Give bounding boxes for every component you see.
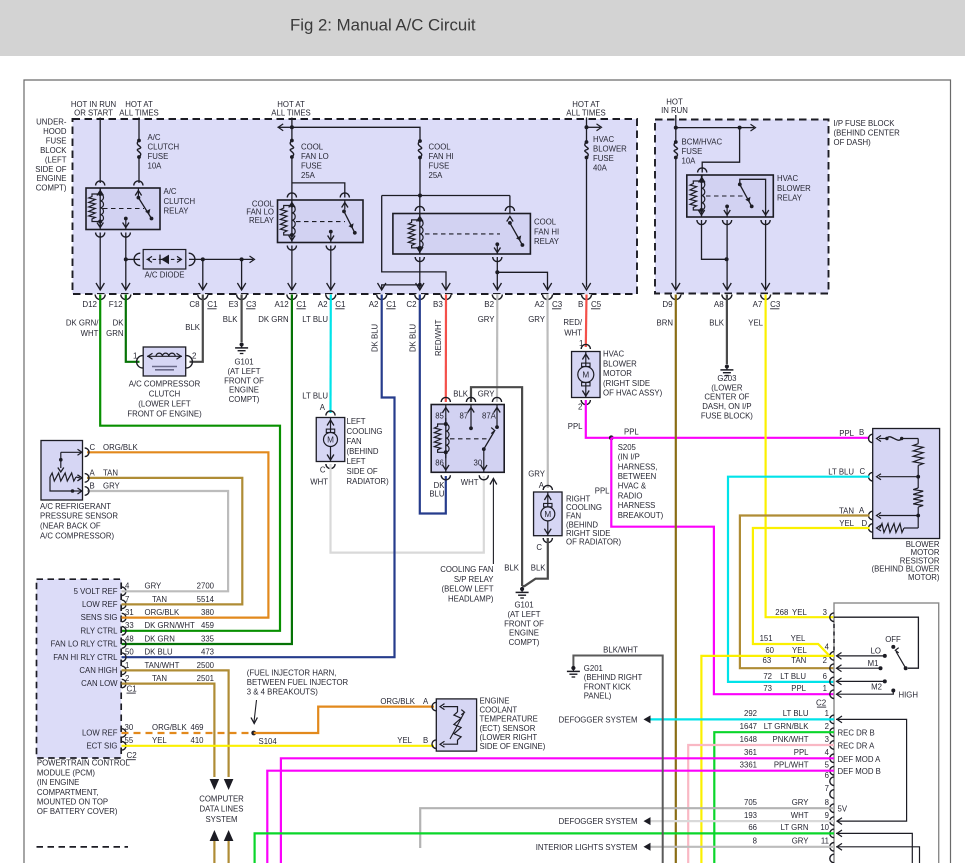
wire feed to B3 exit xyxy=(382,196,446,291)
svg-text:RELAY: RELAY xyxy=(249,216,275,225)
svg-text:193: 193 xyxy=(744,811,757,820)
svg-text:C: C xyxy=(536,543,542,552)
svg-text:SIDE OF: SIDE OF xyxy=(35,165,66,174)
fan switch M1 contact xyxy=(879,666,883,670)
connector E3 C3 xyxy=(236,294,246,299)
svg-text:FAN LO: FAN LO xyxy=(301,152,329,161)
wire WHT left fan to S/P relay 30 xyxy=(331,464,484,553)
wire DK BLU A2 C1 to PCM FAN HI RLY CTRL xyxy=(122,295,395,658)
svg-text:A: A xyxy=(859,506,865,515)
svg-text:RLY CTRL: RLY CTRL xyxy=(81,626,119,635)
svg-text:ALL TIMES: ALL TIMES xyxy=(119,109,158,118)
svg-text:2: 2 xyxy=(192,352,197,361)
svg-text:LOW REF: LOW REF xyxy=(82,600,118,609)
svg-text:2: 2 xyxy=(125,674,129,683)
relay COOL FAN LO RELAY box xyxy=(278,200,364,243)
svg-text:C1: C1 xyxy=(296,300,307,309)
svg-text:(LOWER RIGHT: (LOWER RIGHT xyxy=(480,733,538,742)
wire ORG/BLK 380 pressure sensor C xyxy=(87,452,268,617)
fan switch pin 7 xyxy=(830,790,834,799)
svg-text:FUSE: FUSE xyxy=(46,136,67,145)
svg-text:50: 50 xyxy=(125,648,134,657)
svg-text:A/C: A/C xyxy=(164,187,177,196)
svg-text:SENS SIG: SENS SIG xyxy=(81,613,118,622)
svg-text:FUSE: FUSE xyxy=(682,147,703,156)
svg-text:30: 30 xyxy=(125,723,134,732)
wire tap to hvac blower relay xyxy=(676,127,740,129)
fan switch pin 5 xyxy=(830,766,834,775)
fuse A/C CLUTCH FUSE 10A xyxy=(137,139,141,143)
svg-text:COOLING: COOLING xyxy=(347,427,383,436)
svg-text:UNDER-: UNDER- xyxy=(36,118,67,127)
svg-text:BREAKOUT): BREAKOUT) xyxy=(618,511,664,520)
svg-text:410: 410 xyxy=(190,736,204,745)
svg-text:(RIGHT SIDE: (RIGHT SIDE xyxy=(603,379,650,388)
svg-text:1648: 1648 xyxy=(740,735,757,744)
svg-text:A: A xyxy=(90,468,96,477)
svg-text:MOUNTED ON TOP: MOUNTED ON TOP xyxy=(37,798,108,807)
connector B C5 xyxy=(581,294,591,299)
svg-text:REC DR A: REC DR A xyxy=(838,742,876,751)
hvac blower relay switch xyxy=(740,179,766,217)
svg-text:8: 8 xyxy=(753,837,757,846)
wire LT GRN/BLK 1647 xyxy=(714,732,834,863)
wire GRY 2700 pressure sensor B xyxy=(87,491,228,591)
svg-text:335: 335 xyxy=(201,634,215,643)
svg-text:ORG/BLK: ORG/BLK xyxy=(145,608,180,617)
wire PNK/WHT 1648 xyxy=(688,745,834,863)
svg-text:(AT LEFT: (AT LEFT xyxy=(227,367,260,376)
svg-text:CLUTCH: CLUTCH xyxy=(164,197,196,206)
svg-text:85: 85 xyxy=(435,412,444,421)
svg-text:GRY: GRY xyxy=(528,470,546,479)
svg-text:DK BLU: DK BLU xyxy=(371,323,380,352)
component LEFT COOLING FAN motor xyxy=(326,411,335,416)
svg-text:BLK: BLK xyxy=(531,564,547,573)
svg-text:LEFT: LEFT xyxy=(347,457,366,466)
diode A/C DIODE xyxy=(126,258,140,260)
svg-text:GRY: GRY xyxy=(792,837,810,846)
svg-text:48: 48 xyxy=(125,634,134,643)
svg-text:INTERIOR LIGHTS SYSTEM: INTERIOR LIGHTS SYSTEM xyxy=(536,843,638,852)
svg-text:GRN: GRN xyxy=(106,329,123,338)
svg-text:PPL: PPL xyxy=(624,428,639,437)
wire LT BLU A2 to left cooling fan xyxy=(329,295,331,414)
svg-text:D9: D9 xyxy=(662,300,673,309)
fuse BCM/HVAC FUSE 10A xyxy=(674,140,678,144)
svg-text:RELAY: RELAY xyxy=(164,207,190,216)
svg-text:A8: A8 xyxy=(714,300,724,309)
svg-text:72: 72 xyxy=(763,672,772,681)
cool fan lo relay dashed link xyxy=(296,221,345,223)
component RIGHT COOLING FAN motor xyxy=(543,485,552,490)
svg-text:DK BLU: DK BLU xyxy=(409,323,418,352)
svg-text:55: 55 xyxy=(125,736,134,745)
svg-text:DK: DK xyxy=(113,319,125,328)
A/C clutch relay switch xyxy=(137,188,139,196)
wire RED/WHT B3 to S/P relay 85 xyxy=(445,295,447,403)
svg-text:4: 4 xyxy=(825,748,830,757)
svg-text:C1: C1 xyxy=(207,300,218,309)
splice S205 xyxy=(609,435,614,440)
wire PPL S205 to fan switch 73 xyxy=(611,438,834,694)
S/P relay switch arm xyxy=(484,431,495,449)
wire relay to F12 exit xyxy=(125,233,127,291)
svg-text:A/C DIODE: A/C DIODE xyxy=(145,271,185,280)
svg-text:LT GRN: LT GRN xyxy=(781,823,809,832)
svg-text:WHT: WHT xyxy=(564,329,582,338)
cool fan hi feed rail xyxy=(382,195,510,197)
wire RED/WHT B C5 to blower motor xyxy=(585,295,588,348)
svg-text:CAN LOW: CAN LOW xyxy=(81,679,118,688)
wire BLK right fan to G101 xyxy=(522,538,548,586)
svg-text:DEFOGGER SYSTEM: DEFOGGER SYSTEM xyxy=(559,817,638,826)
wire ORG/BLK 469 dashed to S104 xyxy=(122,732,251,734)
svg-text:6: 6 xyxy=(823,672,827,681)
svg-text:TEMPERATURE: TEMPERATURE xyxy=(480,715,538,724)
svg-text:A/C COMPRESSOR: A/C COMPRESSOR xyxy=(129,380,201,389)
svg-text:LT BLU: LT BLU xyxy=(302,315,328,324)
svg-text:C: C xyxy=(320,466,326,475)
svg-text:A/C COMPRESSOR): A/C COMPRESSOR) xyxy=(40,531,114,540)
svg-text:BRN: BRN xyxy=(657,319,673,328)
svg-text:BETWEEN: BETWEEN xyxy=(618,472,657,481)
wire LT BLU 292 defogger row xyxy=(651,718,835,720)
ground G101 (left front engine) xyxy=(520,587,524,591)
component ENGINE COOLANT TEMPERATURE SENSOR xyxy=(436,699,476,751)
module POWERTRAIN CONTROL MODULE box xyxy=(37,579,122,758)
svg-text:OR START: OR START xyxy=(74,109,113,118)
connector A2 C1 xyxy=(326,294,336,299)
svg-text:C: C xyxy=(860,467,866,476)
svg-text:473: 473 xyxy=(201,648,214,657)
wire BLK A8 to G203 xyxy=(726,295,728,365)
svg-text:C2: C2 xyxy=(816,698,827,707)
svg-text:F12: F12 xyxy=(109,300,123,309)
I/P fuse block box xyxy=(655,120,829,294)
svg-text:YEL: YEL xyxy=(152,736,167,745)
wire TAN 2501 to data lines xyxy=(122,684,215,777)
wire TAN resistor A to fan switch 63 xyxy=(740,516,870,669)
svg-text:COMPT): COMPT) xyxy=(36,184,67,193)
wire GRY 8 interior lights row xyxy=(651,846,835,848)
svg-text:RED/: RED/ xyxy=(563,318,582,327)
svg-text:HIGH: HIGH xyxy=(899,691,919,700)
svg-text:DK GRN: DK GRN xyxy=(258,315,288,324)
svg-text:WHT: WHT xyxy=(461,478,479,487)
svg-text:A2: A2 xyxy=(318,300,328,309)
svg-text:FAN HI RLY CTRL: FAN HI RLY CTRL xyxy=(53,653,118,662)
svg-text:G101: G101 xyxy=(514,601,533,610)
cool fan lo relay output pin xyxy=(329,230,333,234)
svg-text:C3: C3 xyxy=(770,300,781,309)
connector A12 C1 xyxy=(287,294,297,299)
svg-text:ENGINE: ENGINE xyxy=(229,386,259,395)
svg-text:BETWEEN FUEL INJECTOR: BETWEEN FUEL INJECTOR xyxy=(247,678,349,687)
svg-text:C3: C3 xyxy=(246,300,257,309)
svg-text:DK BLU: DK BLU xyxy=(145,648,174,657)
svg-text:GRY: GRY xyxy=(792,798,810,807)
svg-text:1: 1 xyxy=(125,661,129,670)
A/C clutch relay coil xyxy=(99,188,101,194)
svg-text:LT BLU: LT BLU xyxy=(828,468,854,477)
wire BLK S/P relay 87 to G101 xyxy=(471,387,522,586)
fan switch pin 11 xyxy=(830,843,834,852)
wire GRY A2 C3 to right cooling fan xyxy=(546,295,548,489)
svg-text:7: 7 xyxy=(125,595,129,604)
connector A8 xyxy=(722,294,732,299)
below-PCM dashed box edge xyxy=(37,846,129,848)
svg-text:BLK: BLK xyxy=(709,319,725,328)
connector D12 xyxy=(95,294,105,299)
svg-text:RELAY: RELAY xyxy=(534,237,560,246)
svg-text:ORG/BLK: ORG/BLK xyxy=(152,723,187,732)
svg-text:SIDE OF ENGINE): SIDE OF ENGINE) xyxy=(480,742,546,751)
svg-text:YEL: YEL xyxy=(792,608,807,617)
svg-text:10: 10 xyxy=(820,823,829,832)
svg-text:DEF MOD B: DEF MOD B xyxy=(838,767,881,776)
wire to C8 exit xyxy=(202,259,204,290)
wire cool fan lo fuse drop xyxy=(291,118,293,141)
svg-text:WHT: WHT xyxy=(81,329,99,338)
svg-text:PPL: PPL xyxy=(839,429,854,438)
relay A/C CLUTCH RELAY box xyxy=(86,188,160,230)
wire DK BLU C2 to S/P relay 86 xyxy=(420,295,446,514)
fan switch pin arcs C2 xyxy=(830,613,834,622)
svg-text:C2: C2 xyxy=(127,751,138,760)
svg-text:ORG/BLK: ORG/BLK xyxy=(103,443,138,452)
A/C clutch relay dashed link xyxy=(103,208,144,210)
svg-text:7: 7 xyxy=(825,784,829,793)
fuse COOL FAN HI FUSE 25A xyxy=(418,139,422,143)
svg-text:ENGINE: ENGINE xyxy=(509,629,539,638)
svg-text:B3: B3 xyxy=(433,300,443,309)
svg-text:3361: 3361 xyxy=(740,761,757,770)
svg-text:B: B xyxy=(859,428,864,437)
wire coil out to A2 C1 and C2 exits xyxy=(419,257,421,285)
S/P relay coil xyxy=(445,405,447,425)
ground G101 (engine compt) xyxy=(240,342,244,346)
svg-text:8: 8 xyxy=(825,798,829,807)
fan switch pin 2 xyxy=(830,728,834,737)
wire BLK C8 to compressor clutch pin 2 xyxy=(190,295,203,362)
svg-text:COMPARTMENT,: COMPARTMENT, xyxy=(37,788,99,797)
S/P relay 87 contact xyxy=(470,405,472,429)
wire hvac blower fuse drop xyxy=(586,118,588,143)
wire WHT 193 defogger row xyxy=(651,820,835,822)
svg-text:COOL: COOL xyxy=(534,218,557,227)
svg-text:2: 2 xyxy=(823,656,827,665)
svg-text:WHT: WHT xyxy=(310,478,328,487)
svg-text:3: 3 xyxy=(823,608,827,617)
wire YEL A7 to fan switch 268 xyxy=(766,295,834,618)
svg-text:YEL: YEL xyxy=(748,319,763,328)
svg-text:CLUTCH: CLUTCH xyxy=(148,142,180,151)
svg-text:31: 31 xyxy=(125,608,134,617)
hvac blower relay dashed link xyxy=(706,195,746,197)
svg-text:PNK/WHT: PNK/WHT xyxy=(773,735,809,744)
wire PPL S205 to blower resistor B xyxy=(611,437,869,439)
svg-text:RED/WHT: RED/WHT xyxy=(434,319,443,356)
svg-text:S104: S104 xyxy=(259,737,278,746)
connector A7 C3 xyxy=(760,294,770,299)
wire BRN D9 down xyxy=(675,295,677,863)
fan switch M2 contact xyxy=(883,679,887,683)
svg-text:LT GRN/BLK: LT GRN/BLK xyxy=(764,722,810,731)
svg-text:361: 361 xyxy=(744,748,757,757)
resistor internal element A to D xyxy=(877,513,882,519)
fan switch pin 3 xyxy=(830,741,834,750)
wire switch out to B2 and A2 C3 exits xyxy=(496,257,498,272)
svg-text:25A: 25A xyxy=(301,171,316,180)
svg-text:FRONT KICK: FRONT KICK xyxy=(584,682,632,691)
svg-text:PPL: PPL xyxy=(791,684,806,693)
svg-text:3: 3 xyxy=(825,735,829,744)
svg-text:LEFT: LEFT xyxy=(347,417,366,426)
svg-text:COMPT): COMPT) xyxy=(509,638,540,647)
fan switch pin 9 xyxy=(830,817,834,826)
wire hvac relay to A8 exit xyxy=(726,220,728,290)
svg-text:PPL: PPL xyxy=(794,748,809,757)
svg-text:FUSE: FUSE xyxy=(148,152,169,161)
fan switch pin 10 xyxy=(830,829,834,838)
svg-text:FAN LO RLY CTRL: FAN LO RLY CTRL xyxy=(51,640,119,649)
fan switch internal links right side xyxy=(836,719,907,821)
cool fan lo relay coil xyxy=(291,200,293,206)
relay COOLING FAN S/P RELAY box xyxy=(441,397,450,402)
connector C2 xyxy=(415,294,425,299)
svg-text:LOW REF: LOW REF xyxy=(82,729,118,738)
svg-text:(NEAR BACK OF: (NEAR BACK OF xyxy=(40,522,101,531)
svg-text:5: 5 xyxy=(825,761,830,770)
svg-text:ORG/BLK: ORG/BLK xyxy=(380,697,415,706)
svg-text:IN RUN: IN RUN xyxy=(661,106,688,115)
cool fan lo relay switch xyxy=(344,200,346,210)
relay COOL FAN HI RELAY box xyxy=(393,214,531,255)
wire hvac relay coil out joins A8 xyxy=(702,220,727,259)
svg-text:87A: 87A xyxy=(482,412,497,421)
svg-text:(BEHIND RIGHT: (BEHIND RIGHT xyxy=(584,673,643,682)
wire PPL blower motor to S205 xyxy=(586,400,612,438)
wire PPL 361 xyxy=(281,758,834,863)
svg-text:B: B xyxy=(578,300,583,309)
svg-text:151: 151 xyxy=(760,634,773,643)
svg-text:PRESSURE SENSOR: PRESSURE SENSOR xyxy=(40,512,118,521)
node diode to C8 xyxy=(201,257,205,261)
svg-text:RELAY: RELAY xyxy=(777,194,803,203)
svg-text:YEL: YEL xyxy=(397,736,412,745)
wire TAN 5514 pressure sensor A xyxy=(87,478,242,605)
svg-text:(BEHIND CENTER: (BEHIND CENTER xyxy=(834,129,901,138)
svg-text:G201: G201 xyxy=(584,664,603,673)
underhood fuse block box xyxy=(73,119,638,294)
svg-text:87: 87 xyxy=(460,412,469,421)
svg-text:CLUTCH: CLUTCH xyxy=(149,390,181,399)
svg-text:SIDE OF: SIDE OF xyxy=(347,467,378,476)
svg-text:FRONT OF ENGINE): FRONT OF ENGINE) xyxy=(127,410,202,419)
svg-text:A: A xyxy=(320,403,326,412)
svg-text:PPL: PPL xyxy=(595,487,610,496)
svg-text:73: 73 xyxy=(763,684,772,693)
cool fan hi relay switch xyxy=(507,217,513,222)
svg-text:C1: C1 xyxy=(335,300,346,309)
svg-text:C: C xyxy=(90,443,96,452)
svg-text:Fig 2: Manual A/C Circuit: Fig 2: Manual A/C Circuit xyxy=(290,16,476,35)
ground G201 and BLK/WHT wire xyxy=(573,656,662,863)
wire feed to cool fan hi fuse xyxy=(292,127,420,140)
fan switch rotary contacts xyxy=(904,666,908,670)
svg-text:PANEL): PANEL) xyxy=(584,692,612,701)
svg-text:HVAC: HVAC xyxy=(593,135,614,144)
svg-text:LT BLU: LT BLU xyxy=(783,709,809,718)
svg-text:ECT SIG: ECT SIG xyxy=(86,742,117,751)
S/P relay location arrow xyxy=(492,480,494,564)
A/C clutch relay output pin xyxy=(124,217,128,221)
wire DK GRN/WHT D12 to PCM RLY CTRL xyxy=(100,295,280,631)
svg-text:380: 380 xyxy=(201,608,215,617)
svg-text:HVAC: HVAC xyxy=(603,350,624,359)
svg-text:OF HVAC ASSY): OF HVAC ASSY) xyxy=(603,389,663,398)
svg-text:FRONT OF: FRONT OF xyxy=(224,376,264,385)
resistor internal element C to A xyxy=(877,474,882,480)
svg-text:LT BLU: LT BLU xyxy=(302,391,328,400)
svg-text:ALL TIMES: ALL TIMES xyxy=(566,109,605,118)
computer data lines arrows up xyxy=(210,830,220,841)
svg-text:(AT LEFT: (AT LEFT xyxy=(507,610,540,619)
svg-text:BLU: BLU xyxy=(429,490,445,499)
svg-text:A/C REFRIGERANT: A/C REFRIGERANT xyxy=(40,502,111,511)
node diode to E3 xyxy=(240,257,244,261)
svg-text:COMPUTER: COMPUTER xyxy=(199,795,244,804)
svg-text:5 VOLT REF: 5 VOLT REF xyxy=(74,587,118,596)
svg-text:A12: A12 xyxy=(274,300,289,309)
svg-text:GRY: GRY xyxy=(145,582,163,591)
svg-text:HEADLAMP): HEADLAMP) xyxy=(448,594,494,603)
svg-text:CENTER OF: CENTER OF xyxy=(704,393,749,402)
svg-text:OFF: OFF xyxy=(885,635,901,644)
fan switch pin 1 xyxy=(830,715,834,724)
svg-text:BLOCK: BLOCK xyxy=(40,146,67,155)
svg-text:DEF MOD A: DEF MOD A xyxy=(838,755,882,764)
wire GRY B2 to S/P relay 87A xyxy=(496,295,498,403)
splice S104 xyxy=(251,731,256,736)
component A/C REFRIGERANT PRESSURE SENSOR xyxy=(41,441,83,501)
wire PPL/WHT 3361 xyxy=(267,771,834,863)
svg-text:BLK: BLK xyxy=(223,315,239,324)
wire DK GRN A12 to PCM FAN LO RLY CTRL xyxy=(122,295,292,645)
svg-text:B2: B2 xyxy=(484,300,494,309)
svg-text:OF DASH): OF DASH) xyxy=(834,138,872,147)
svg-text:COOLING FAN: COOLING FAN xyxy=(440,565,493,574)
svg-text:COOLANT: COOLANT xyxy=(480,706,518,715)
svg-text:2700: 2700 xyxy=(197,582,215,591)
fan switch connector dashes xyxy=(833,624,835,651)
fuse HVAC BLOWER FUSE 40A xyxy=(585,140,589,144)
svg-text:M: M xyxy=(544,510,551,519)
svg-text:GRY: GRY xyxy=(478,390,496,399)
fan switch pin 6 xyxy=(830,777,834,786)
svg-text:CAN HIGH: CAN HIGH xyxy=(79,666,117,675)
svg-text:2501: 2501 xyxy=(197,674,214,683)
connector A2 C1 xyxy=(377,294,387,299)
wire LT BLU resistor C to fan switch 72 xyxy=(728,477,870,682)
svg-text:RADIATOR): RADIATOR) xyxy=(347,477,390,486)
svg-text:COMPT): COMPT) xyxy=(229,395,260,404)
svg-text:S/P RELAY: S/P RELAY xyxy=(454,575,494,584)
relay HVAC BLOWER RELAY box xyxy=(687,175,774,217)
svg-text:60: 60 xyxy=(765,646,774,655)
component BLOWER MOTOR RESISTOR box xyxy=(873,429,940,539)
